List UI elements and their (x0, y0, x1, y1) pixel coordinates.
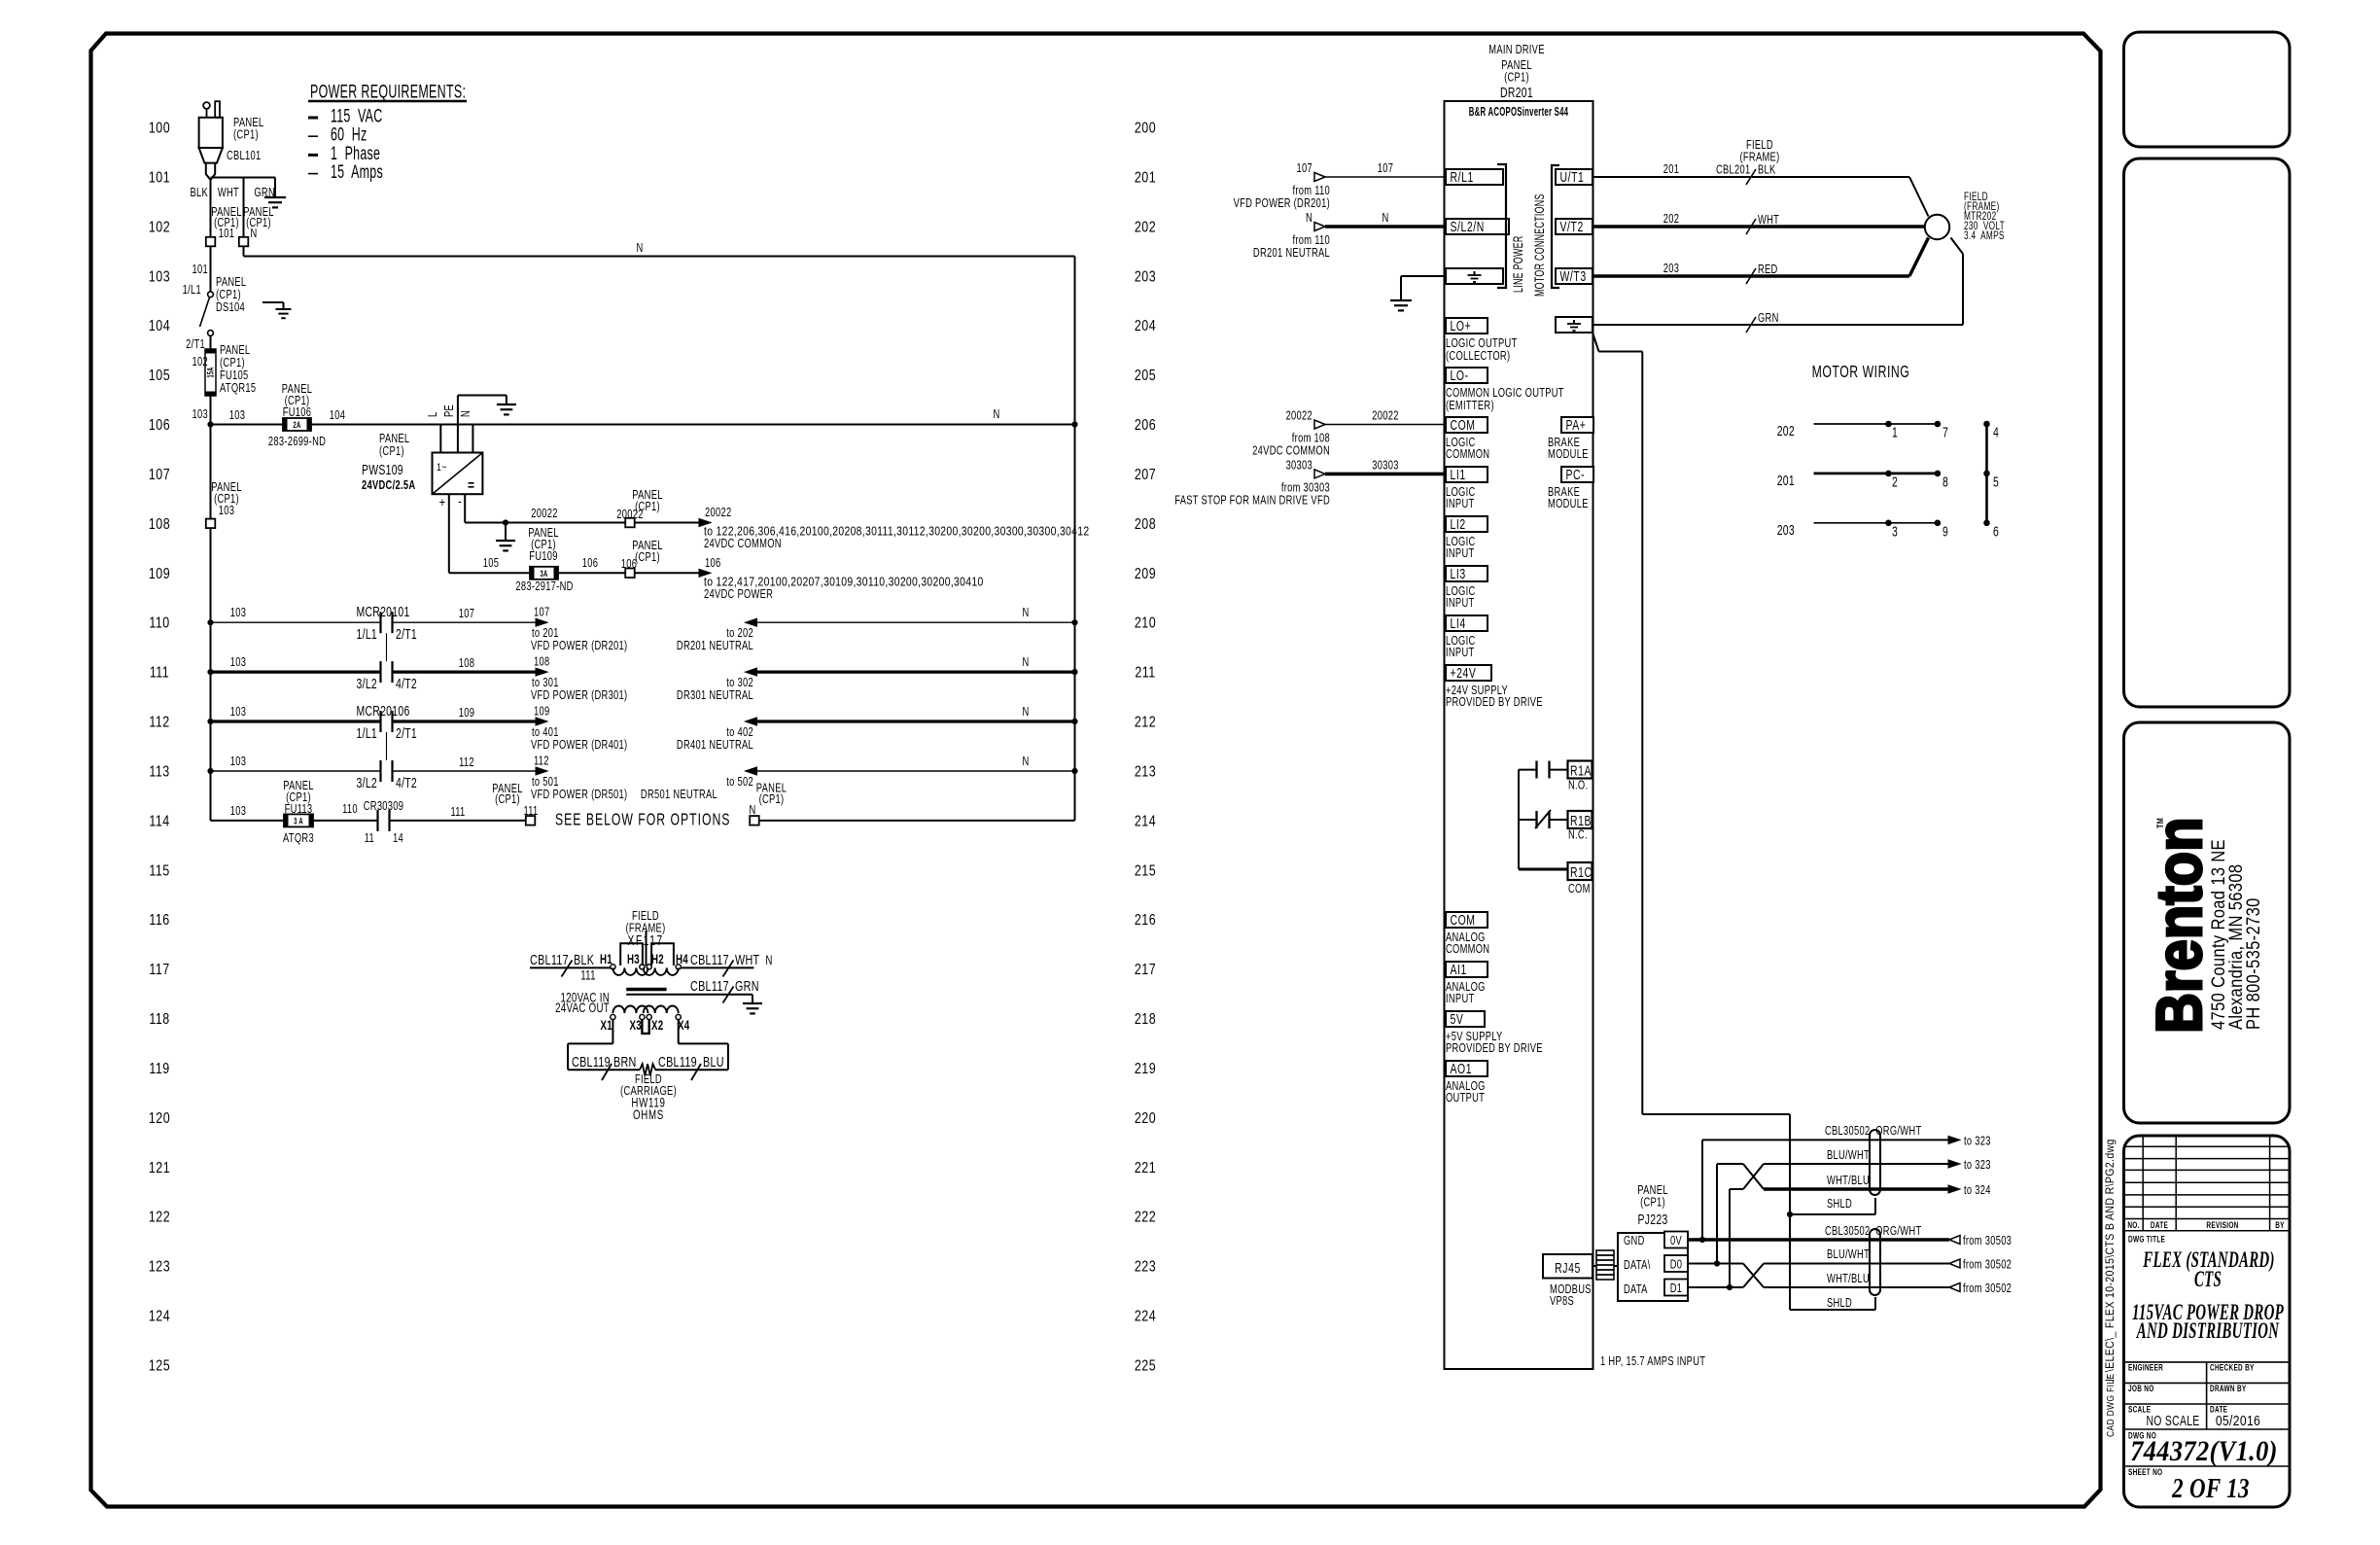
svg-text:BLK: BLK (1758, 163, 1776, 177)
svg-text:WHT: WHT (218, 187, 239, 200)
svg-text:1 Phase: 1 Phase (331, 143, 380, 163)
svg-text:DR201 NEUTRAL: DR201 NEUTRAL (677, 640, 753, 653)
svg-text:110: 110 (342, 803, 358, 817)
svg-text:121: 121 (149, 1159, 170, 1176)
svg-text:COMMON: COMMON (1446, 448, 1489, 462)
svg-text:N: N (1306, 212, 1312, 226)
svg-text:PROVIDED BY DRIVE: PROVIDED BY DRIVE (1446, 696, 1543, 710)
svg-text:GND: GND (1624, 1235, 1645, 1248)
svg-text:219: 219 (1135, 1061, 1156, 1078)
svg-text:108: 108 (149, 516, 170, 534)
svg-text:B&R ACOPOSinverter S44: B&R ACOPOSinverter S44 (1469, 105, 1569, 120)
svg-text:20022: 20022 (1372, 409, 1398, 423)
svg-text:H3: H3 (627, 953, 640, 967)
svg-text:117: 117 (149, 962, 169, 979)
svg-text:200: 200 (1135, 120, 1156, 137)
svg-text:(CP1): (CP1) (220, 357, 245, 370)
svg-text:204: 204 (1135, 318, 1156, 335)
svg-text:122: 122 (149, 1209, 170, 1226)
svg-text:202: 202 (1777, 423, 1795, 439)
svg-text:N: N (1022, 607, 1029, 620)
svg-text:111: 111 (523, 805, 538, 819)
svg-text:LI1: LI1 (1451, 467, 1466, 482)
svg-text:CBL30502 ORG/WHT: CBL30502 ORG/WHT (1825, 1225, 1921, 1239)
svg-text:203: 203 (1135, 268, 1156, 286)
svg-text:218: 218 (1135, 1011, 1156, 1029)
svg-text:(CP1): (CP1) (216, 289, 241, 302)
svg-text:DATA: DATA (1624, 1283, 1648, 1297)
svg-text:to 122,417,20100,20207,30109,3: to 122,417,20100,20207,30109,30110,30200… (704, 575, 984, 588)
svg-text:2 OF 13: 2 OF 13 (2171, 1473, 2250, 1504)
svg-text:JOB NO: JOB NO (2128, 1384, 2154, 1393)
svg-text:WHT: WHT (1758, 214, 1779, 228)
svg-text:103: 103 (229, 409, 245, 423)
svg-text:3A: 3A (540, 568, 547, 579)
svg-text:11: 11 (365, 832, 374, 846)
svg-text:LOGIC OUTPUT: LOGIC OUTPUT (1446, 337, 1518, 351)
svg-text:20022: 20022 (1286, 409, 1312, 423)
svg-text:R1C: R1C (1570, 864, 1592, 880)
svg-text:106: 106 (149, 417, 170, 435)
svg-text:(CP1): (CP1) (1504, 71, 1529, 85)
svg-text:208: 208 (1135, 516, 1156, 534)
svg-text:LI3: LI3 (1451, 566, 1466, 581)
svg-text:PANEL: PANEL (220, 344, 250, 358)
svg-text:103: 103 (230, 607, 246, 620)
svg-text:VFD POWER (DR401): VFD POWER (DR401) (531, 739, 627, 753)
svg-text:CBL101: CBL101 (227, 150, 262, 163)
svg-text:1/L1: 1/L1 (357, 725, 377, 741)
svg-text:SHEET NO: SHEET NO (2128, 1467, 2162, 1477)
svg-text:103: 103 (230, 755, 246, 769)
svg-text:DWG TITLE: DWG TITLE (2128, 1234, 2165, 1244)
svg-text:FAST STOP FOR MAIN DRIVE VFD: FAST STOP FOR MAIN DRIVE VFD (1174, 494, 1330, 508)
svg-text:103: 103 (219, 505, 234, 518)
svg-text:110: 110 (149, 614, 169, 632)
svg-text:107: 107 (459, 608, 474, 621)
svg-text:104: 104 (330, 409, 345, 423)
svg-text:REVISION: REVISION (2206, 1220, 2238, 1230)
svg-text:201: 201 (1663, 163, 1679, 177)
svg-text:R1A: R1A (1570, 763, 1592, 779)
svg-text:TM: TM (2155, 818, 2165, 828)
svg-text:114: 114 (149, 813, 169, 830)
svg-text:111: 111 (150, 664, 169, 682)
svg-text:102: 102 (149, 219, 170, 236)
svg-text:VP8S: VP8S (1550, 1295, 1574, 1309)
svg-text:X4: X4 (678, 1019, 690, 1034)
svg-text:from 110: from 110 (1292, 185, 1330, 198)
svg-text:POWER REQUIREMENTS:: POWER REQUIREMENTS: (310, 82, 466, 102)
svg-text:CBL117: CBL117 (530, 951, 569, 967)
svg-text:RED: RED (1758, 263, 1778, 277)
svg-text:113: 113 (149, 763, 169, 781)
svg-text:N: N (1022, 706, 1029, 720)
svg-text:to 202: to 202 (726, 627, 753, 641)
svg-text:to 302: to 302 (726, 677, 753, 690)
svg-text:14: 14 (393, 832, 403, 846)
svg-text:U/T1: U/T1 (1560, 169, 1585, 185)
svg-text:3/L2: 3/L2 (357, 775, 377, 790)
svg-text:X2: X2 (651, 1019, 664, 1034)
svg-text:101: 101 (192, 263, 208, 277)
svg-text:(COLLECTOR): (COLLECTOR) (1446, 350, 1510, 364)
svg-text:to 502: to 502 (726, 776, 753, 790)
svg-text:CBL119: CBL119 (658, 1053, 697, 1070)
svg-text:2: 2 (1892, 474, 1898, 490)
svg-text:30303: 30303 (1372, 459, 1398, 473)
svg-text:123: 123 (149, 1258, 170, 1276)
svg-text:115: 115 (149, 862, 169, 880)
svg-text:201: 201 (1135, 169, 1156, 187)
svg-text:VFD POWER (DR201): VFD POWER (DR201) (1234, 197, 1330, 211)
svg-text:DR501 NEUTRAL: DR501 NEUTRAL (641, 789, 717, 802)
svg-text:105: 105 (483, 557, 499, 571)
svg-text:PH 800-535-2730: PH 800-535-2730 (2243, 897, 2263, 1030)
svg-text:201: 201 (1777, 473, 1795, 488)
svg-text:BLU/WHT: BLU/WHT (1827, 1248, 1870, 1262)
svg-text:-: - (458, 494, 462, 509)
svg-text:NO.: NO. (2127, 1220, 2139, 1230)
svg-text:=: = (468, 477, 474, 494)
svg-text:15 Amps: 15 Amps (331, 162, 383, 183)
svg-text:125: 125 (149, 1357, 170, 1375)
svg-text:103: 103 (149, 268, 170, 286)
svg-text:0V: 0V (1670, 1235, 1682, 1248)
svg-text:112: 112 (534, 755, 549, 768)
svg-text:OUTPUT: OUTPUT (1446, 1092, 1485, 1106)
svg-text:225: 225 (1135, 1357, 1156, 1375)
svg-text:H2: H2 (651, 953, 664, 967)
svg-text:N: N (1022, 755, 1029, 769)
svg-text:CR30309: CR30309 (364, 800, 404, 814)
svg-text:RJ45: RJ45 (1555, 1260, 1581, 1276)
svg-text:GRN: GRN (735, 977, 759, 994)
svg-text:(CP1): (CP1) (635, 551, 660, 565)
svg-text:115 VAC: 115 VAC (331, 106, 382, 126)
svg-text:24VDC/2.5A: 24VDC/2.5A (362, 479, 415, 493)
svg-text:107: 107 (1297, 162, 1312, 176)
svg-text:N: N (993, 408, 999, 422)
svg-text:SHLD: SHLD (1827, 1198, 1852, 1211)
svg-text:AND DISTRIBUTION: AND DISTRIBUTION (2136, 1319, 2280, 1344)
svg-text:ATQR3: ATQR3 (283, 832, 314, 846)
svg-text:H1: H1 (600, 953, 612, 967)
svg-text:118: 118 (149, 1011, 169, 1029)
svg-text:PE: PE (443, 404, 457, 417)
svg-text:PC-: PC- (1566, 467, 1586, 482)
svg-text:PANEL: PANEL (379, 433, 409, 446)
svg-text:DRAWN BY: DRAWN BY (2210, 1384, 2247, 1393)
svg-text:120: 120 (149, 1110, 170, 1128)
svg-text:R1B: R1B (1570, 813, 1592, 828)
svg-text:LO-: LO- (1451, 368, 1469, 383)
svg-text:DR301 NEUTRAL: DR301 NEUTRAL (677, 689, 753, 703)
svg-text:R/L1: R/L1 (1451, 169, 1474, 185)
svg-text:ENGINEER: ENGINEER (2128, 1362, 2163, 1372)
svg-text:BLK: BLK (574, 951, 594, 967)
svg-text:2/T1: 2/T1 (396, 725, 417, 741)
svg-text:112: 112 (459, 756, 474, 770)
svg-text:BLU/WHT: BLU/WHT (1827, 1149, 1870, 1163)
svg-text:4/T2: 4/T2 (396, 775, 417, 790)
svg-text:111: 111 (450, 806, 465, 820)
svg-text:from 30502: from 30502 (1963, 1282, 2012, 1296)
svg-text:PJ223: PJ223 (1637, 1211, 1667, 1227)
svg-text:LI2: LI2 (1451, 516, 1466, 532)
svg-text:119: 119 (149, 1061, 169, 1078)
svg-text:NO SCALE: NO SCALE (2146, 1413, 2199, 1428)
svg-text:4/T2: 4/T2 (396, 676, 417, 691)
svg-text:108: 108 (459, 657, 474, 671)
svg-text:AO1: AO1 (1451, 1061, 1473, 1076)
svg-text:05/2016: 05/2016 (2216, 1413, 2260, 1428)
svg-text:N: N (1382, 212, 1388, 226)
svg-text:1/L1: 1/L1 (357, 627, 377, 643)
svg-text:to 401: to 401 (532, 726, 559, 740)
svg-text:I: \ELEC\_ FLEX 10-2015\CTS B: I: \ELEC\_ FLEX 10-2015\CTS B AND R\PG2.… (2104, 1139, 2117, 1382)
svg-text:222: 222 (1135, 1209, 1156, 1226)
svg-text:N: N (1022, 656, 1029, 670)
svg-text:BRN: BRN (613, 1053, 637, 1070)
svg-text:101: 101 (219, 228, 234, 241)
svg-text:D0: D0 (1670, 1258, 1683, 1272)
svg-text:(EMITTER): (EMITTER) (1446, 400, 1494, 413)
svg-text:104: 104 (149, 318, 170, 335)
svg-text:103: 103 (230, 706, 246, 720)
svg-text:15A: 15A (205, 367, 216, 377)
svg-text:Brenton: Brenton (2145, 817, 2216, 1034)
svg-text:60 Hz: 60 Hz (331, 124, 367, 145)
svg-text:24VDC POWER: 24VDC POWER (704, 588, 773, 602)
svg-text:107: 107 (149, 467, 170, 484)
svg-text:24VDC COMMON: 24VDC COMMON (1252, 444, 1330, 458)
svg-text:INPUT: INPUT (1446, 597, 1474, 611)
svg-text:211: 211 (1135, 664, 1155, 682)
svg-text:+: + (439, 495, 446, 509)
svg-text:(FRAME): (FRAME) (1740, 151, 1780, 164)
svg-text:(CP1): (CP1) (379, 445, 404, 459)
svg-text:FU105: FU105 (220, 369, 249, 383)
svg-text:3: 3 (1892, 524, 1898, 540)
svg-text:206: 206 (1135, 417, 1156, 435)
svg-text:VFD POWER (DR301): VFD POWER (DR301) (531, 689, 627, 703)
svg-text:205: 205 (1135, 368, 1156, 385)
svg-text:202: 202 (1135, 219, 1156, 236)
svg-text:to 323: to 323 (1964, 1135, 1991, 1148)
svg-text:212: 212 (1135, 714, 1156, 731)
svg-text:S/L2/N: S/L2/N (1451, 219, 1485, 234)
svg-text:N: N (636, 242, 643, 256)
svg-text:223: 223 (1135, 1258, 1156, 1276)
svg-text:COM: COM (1568, 883, 1591, 896)
svg-text:V/T2: V/T2 (1560, 219, 1584, 234)
svg-text:from 30503: from 30503 (1963, 1235, 2012, 1248)
svg-text:from 30502: from 30502 (1963, 1258, 2012, 1272)
svg-text:N: N (460, 410, 473, 417)
svg-text:SEE BELOW FOR OPTIONS: SEE BELOW FOR OPTIONS (555, 810, 730, 829)
svg-text:N: N (250, 228, 257, 241)
svg-text:(CP1): (CP1) (495, 793, 520, 807)
svg-text:6: 6 (1993, 524, 1999, 540)
svg-text:215: 215 (1135, 862, 1156, 880)
svg-text:(CP1): (CP1) (1640, 1196, 1665, 1210)
svg-text:CBL30502 ORG/WHT: CBL30502 ORG/WHT (1825, 1125, 1921, 1139)
svg-text:INPUT: INPUT (1446, 547, 1474, 561)
svg-text:WHT/BLU: WHT/BLU (1827, 1273, 1870, 1286)
svg-text:INPUT: INPUT (1446, 647, 1474, 660)
svg-text:CBL117: CBL117 (690, 951, 729, 967)
svg-text:to 122,206,306,416,20100,20208: to 122,206,306,416,20100,20208,30111,301… (704, 524, 1089, 538)
svg-text:LINE POWER: LINE POWER (1512, 235, 1525, 293)
svg-text:to 201: to 201 (532, 627, 559, 641)
svg-text:GRN: GRN (254, 187, 275, 200)
svg-text:3.4 AMPS: 3.4 AMPS (1964, 230, 2005, 243)
svg-text:214: 214 (1135, 813, 1156, 830)
svg-text:SHLD: SHLD (1827, 1297, 1852, 1311)
svg-text:107: 107 (534, 606, 549, 619)
svg-text:203: 203 (1777, 522, 1795, 538)
svg-text:203: 203 (1663, 263, 1679, 276)
svg-text:101: 101 (149, 169, 170, 187)
svg-text:109: 109 (149, 565, 170, 582)
svg-text:108: 108 (534, 655, 549, 669)
svg-text:PWS109: PWS109 (362, 462, 403, 477)
svg-text:to 324: to 324 (1964, 1184, 1991, 1198)
svg-text:106: 106 (582, 557, 598, 571)
svg-text:from 108: from 108 (1292, 432, 1330, 445)
svg-text:+24V: +24V (1451, 665, 1477, 681)
svg-text:MCR20106: MCR20106 (356, 703, 409, 719)
svg-text:7: 7 (1942, 425, 1948, 440)
svg-text:202: 202 (1663, 213, 1679, 227)
svg-text:111: 111 (580, 968, 596, 983)
svg-text:24VDC COMMON: 24VDC COMMON (704, 538, 782, 551)
svg-text:5V: 5V (1451, 1011, 1464, 1027)
svg-text:DR201 NEUTRAL: DR201 NEUTRAL (1253, 247, 1330, 261)
svg-text:2/T1: 2/T1 (186, 338, 205, 352)
svg-text:210: 210 (1135, 614, 1156, 632)
svg-text:PANEL: PANEL (216, 276, 246, 290)
svg-text:3 A: 3 A (294, 816, 303, 826)
svg-text:N.C.: N.C. (1568, 828, 1588, 842)
svg-text:COM: COM (1451, 417, 1476, 433)
svg-text:D1: D1 (1670, 1282, 1683, 1296)
svg-text:MCR20101: MCR20101 (356, 605, 409, 620)
svg-text:CTS: CTS (2194, 1268, 2222, 1292)
svg-text:PROVIDED BY DRIVE: PROVIDED BY DRIVE (1446, 1042, 1543, 1056)
svg-text:5: 5 (1993, 474, 1999, 490)
svg-text:DATA\: DATA\ (1624, 1259, 1651, 1273)
svg-text:109: 109 (534, 705, 549, 719)
svg-text:CHECKED BY: CHECKED BY (2210, 1362, 2255, 1372)
svg-text:8: 8 (1942, 474, 1948, 490)
svg-text:221: 221 (1135, 1159, 1156, 1176)
svg-text:DR201: DR201 (1500, 85, 1533, 100)
svg-text:744372(V1.0): 744372(V1.0) (2130, 1436, 2278, 1468)
svg-text:W/T3: W/T3 (1560, 268, 1587, 284)
svg-text:DS104: DS104 (216, 301, 245, 315)
svg-text:CBL117: CBL117 (690, 977, 729, 994)
svg-text:20022: 20022 (705, 507, 731, 520)
svg-text:OHMS: OHMS (633, 1108, 664, 1123)
svg-text:COMMON LOGIC OUTPUT: COMMON LOGIC OUTPUT (1446, 387, 1564, 401)
svg-text:207: 207 (1135, 467, 1156, 484)
svg-text:105: 105 (149, 368, 170, 385)
svg-text:WHT/BLU: WHT/BLU (1827, 1175, 1870, 1188)
svg-text:DATE: DATE (2151, 1220, 2168, 1230)
svg-text:209: 209 (1135, 565, 1156, 582)
svg-text:103: 103 (230, 805, 246, 819)
svg-text:PA+: PA+ (1566, 417, 1587, 433)
svg-text:AI1: AI1 (1451, 962, 1467, 977)
svg-text:BLK: BLK (190, 187, 208, 200)
svg-text:H4: H4 (676, 953, 688, 967)
svg-text:MAIN DRIVE: MAIN DRIVE (1488, 44, 1545, 57)
svg-text:2/T1: 2/T1 (396, 627, 417, 643)
svg-text:4: 4 (1993, 425, 1999, 440)
svg-text:220: 220 (1135, 1110, 1156, 1128)
svg-text:INPUT: INPUT (1446, 498, 1474, 511)
svg-text:112: 112 (149, 714, 169, 731)
svg-text:1: 1 (1892, 425, 1898, 440)
svg-text:283-2699-ND: 283-2699-ND (268, 436, 326, 449)
svg-text:217: 217 (1135, 962, 1156, 979)
svg-text:to 402: to 402 (726, 726, 753, 740)
svg-text:213: 213 (1135, 763, 1156, 781)
svg-text:ATQR15: ATQR15 (220, 382, 256, 396)
svg-text:COM: COM (1451, 912, 1476, 928)
svg-text:COMMON: COMMON (1446, 943, 1489, 957)
svg-text:283-2917-ND: 283-2917-ND (515, 580, 573, 594)
svg-text:MODULE: MODULE (1548, 448, 1589, 462)
svg-text:VFD POWER (DR501): VFD POWER (DR501) (531, 789, 627, 802)
svg-text:N: N (765, 954, 772, 968)
svg-text:to 301: to 301 (532, 677, 559, 690)
svg-text:to 323: to 323 (1964, 1159, 1991, 1173)
svg-text:9: 9 (1942, 524, 1948, 540)
svg-text:30303: 30303 (1286, 459, 1312, 473)
svg-text:116: 116 (149, 912, 169, 930)
svg-text:from 110: from 110 (1292, 234, 1330, 248)
svg-text:INPUT: INPUT (1446, 993, 1474, 1006)
svg-text:L: L (427, 412, 440, 417)
svg-text:LO+: LO+ (1451, 318, 1472, 334)
svg-text:LI4: LI4 (1451, 615, 1466, 631)
svg-text:FU109: FU109 (529, 550, 558, 564)
svg-text:WHT: WHT (735, 951, 759, 967)
svg-text:CAD DWG FILE: CAD DWG FILE (2105, 1374, 2116, 1437)
svg-text:X3: X3 (630, 1019, 643, 1034)
svg-text:X1: X1 (601, 1019, 613, 1034)
svg-text:20022: 20022 (531, 508, 557, 521)
svg-text:CBL201: CBL201 (1716, 163, 1751, 177)
svg-text:BLU: BLU (703, 1053, 724, 1070)
svg-text:100: 100 (149, 120, 170, 137)
svg-text:1/L1: 1/L1 (183, 284, 201, 298)
svg-text:103: 103 (230, 656, 246, 670)
svg-text:MOTOR WIRING: MOTOR WIRING (1812, 363, 1910, 382)
svg-text:224: 224 (1135, 1308, 1156, 1325)
svg-text:216: 216 (1135, 912, 1156, 930)
svg-text:1 HP, 15.7 AMPS INPUT: 1 HP, 15.7 AMPS INPUT (1600, 1355, 1705, 1369)
svg-text:to 501: to 501 (532, 776, 559, 790)
svg-text:24VAC OUT: 24VAC OUT (555, 1001, 610, 1016)
svg-text:CBL119: CBL119 (572, 1053, 611, 1070)
svg-text:GRN: GRN (1758, 312, 1779, 326)
svg-text:109: 109 (459, 707, 474, 720)
svg-text:(CP1): (CP1) (759, 793, 785, 807)
